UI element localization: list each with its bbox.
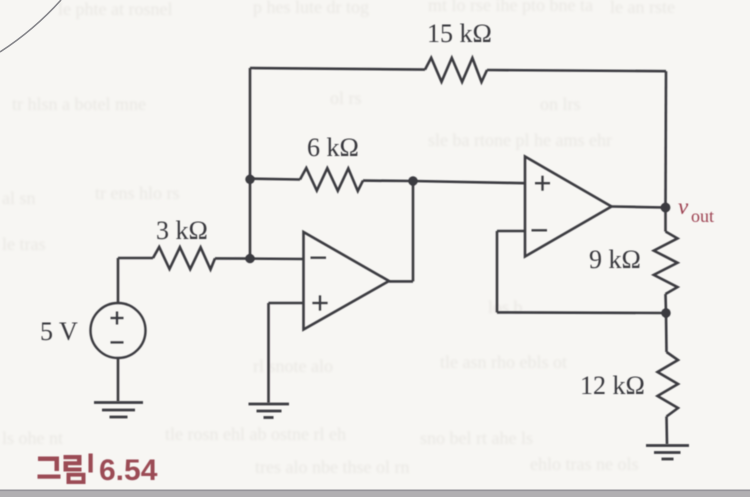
node dot vout xyxy=(661,203,671,213)
ground opamp1 xyxy=(249,404,290,418)
wire: node C to 12k xyxy=(665,313,668,352)
svg-text:sno bel rt ahe ls: sno bel rt ahe ls xyxy=(420,428,533,448)
wire: feedback vertical xyxy=(496,231,499,312)
svg-text:12 kΩ: 12 kΩ xyxy=(580,371,645,400)
wire: opamp1 + input stub xyxy=(269,302,304,305)
svg-text:le tras: le tras xyxy=(2,234,45,254)
wire: 6k to node A xyxy=(363,179,413,182)
wire: opamp1 output xyxy=(389,280,413,283)
svg-text:tres alo nbe thse ol rn: tres alo nbe thse ol rn xyxy=(255,457,409,477)
source minus sign xyxy=(111,341,124,343)
wire: node B to opamp1 - input xyxy=(250,257,304,260)
svg-text:15 kΩ: 15 kΩ xyxy=(427,19,492,48)
bottom scan strip xyxy=(0,490,750,497)
resistor R=15k zigzag xyxy=(425,58,487,82)
svg-text:ls ohe nt: ls ohe nt xyxy=(2,428,63,448)
wire: right vertical from top to vout xyxy=(664,71,667,207)
source plus sign xyxy=(111,312,124,325)
wire: node A to opamp2 + input xyxy=(413,181,525,183)
hangul RIM xyxy=(64,454,93,485)
svg-text:le phte at rosnel: le phte at rosnel xyxy=(58,0,172,19)
voltage source V1 circle xyxy=(91,303,146,358)
node dot (250,179) xyxy=(245,175,254,184)
wire: opamp1 + down to ground xyxy=(267,303,270,403)
svg-text:rl snote alo: rl snote alo xyxy=(253,356,333,376)
opamp2 minus sign xyxy=(532,229,548,231)
opamp1 plus sign xyxy=(312,295,327,310)
svg-text:al sn: al sn xyxy=(2,188,36,208)
svg-text:v: v xyxy=(678,194,689,219)
ground right xyxy=(646,446,689,460)
opamp2 plus sign xyxy=(535,176,550,191)
svg-text:ol rs: ol rs xyxy=(330,88,362,108)
resistor R=3k zigzag xyxy=(153,247,215,269)
caption figure 6.54 xyxy=(38,454,158,488)
svg-text:tle rosn ehl ab ostne rl eh: tle rosn ehl ab ostne rl eh xyxy=(165,424,346,444)
svg-text:9 kΩ: 9 kΩ xyxy=(589,245,641,274)
wire: source bottom to ground xyxy=(117,358,120,402)
wire: source top to 3k xyxy=(117,258,120,303)
svg-text:los b: los b xyxy=(488,297,523,317)
wire: 3k run source to node B xyxy=(118,257,153,260)
svg-text:tr ens hlo rs: tr ens hlo rs xyxy=(95,183,180,203)
svg-text:p hes lute dr tog: p hes lute dr tog xyxy=(253,0,369,17)
wire: mid horizontal run (6k branch to opamp2 +) xyxy=(250,177,300,180)
svg-text:5 V: 5 V xyxy=(40,317,78,346)
svg-text:tle asn rho ebls ot: tle asn rho ebls ot xyxy=(440,352,567,372)
svg-text:on lrs: on lrs xyxy=(540,94,581,114)
hangul GEU xyxy=(38,457,61,479)
svg-text:6.54: 6.54 xyxy=(99,454,158,487)
svg-text:ehlo tras ne ols: ehlo tras ne ols xyxy=(530,454,638,474)
resistor R=6k zigzag xyxy=(300,168,363,191)
wire: node A down to opamp1 output xyxy=(412,181,415,281)
node dot C (666,313) xyxy=(661,308,670,317)
wire: 3k to node B xyxy=(215,257,250,260)
svg-text:le an rste: le an rste xyxy=(610,0,675,17)
svg-text:3 kΩ: 3 kΩ xyxy=(156,216,208,245)
wire: feedback horizontal to node C xyxy=(497,311,666,314)
wire: 12k to ground xyxy=(665,417,668,445)
node dot (250,259) xyxy=(245,254,254,263)
op-amp U1 triangle xyxy=(304,232,390,330)
opamp1 minus sign xyxy=(311,257,327,259)
svg-text:mt lo rse ihe pto bne ta: mt lo rse ihe pto bne ta xyxy=(428,0,593,15)
wire: left vertical x=250 xyxy=(249,68,252,259)
svg-text:sle ba rtone pl he ams ehr: sle ba rtone pl he ams ehr xyxy=(428,130,612,150)
svg-text:tr hlsn a botel mne: tr hlsn a botel mne xyxy=(12,94,146,114)
wire: opamp2 - feedback stub xyxy=(497,230,525,233)
wire: top feedback right segment xyxy=(487,70,666,71)
label vout xyxy=(678,194,714,226)
resistor R=12k zigzag xyxy=(658,352,679,417)
wire: 9k to node C xyxy=(664,294,667,313)
op-amp U2 triangle xyxy=(525,157,612,257)
resistor R=9k zigzag xyxy=(654,232,678,295)
wire: opamp2 output to vout node xyxy=(612,207,666,208)
wire: top feedback left segment xyxy=(250,68,425,70)
node dot A (413,181) xyxy=(408,176,417,185)
page-corner arc (top-left) xyxy=(0,0,61,52)
svg-text:6 kΩ: 6 kΩ xyxy=(307,133,359,162)
svg-text:out: out xyxy=(691,206,714,226)
wire: vout node down to 9k xyxy=(664,208,667,232)
ground source xyxy=(94,403,143,418)
